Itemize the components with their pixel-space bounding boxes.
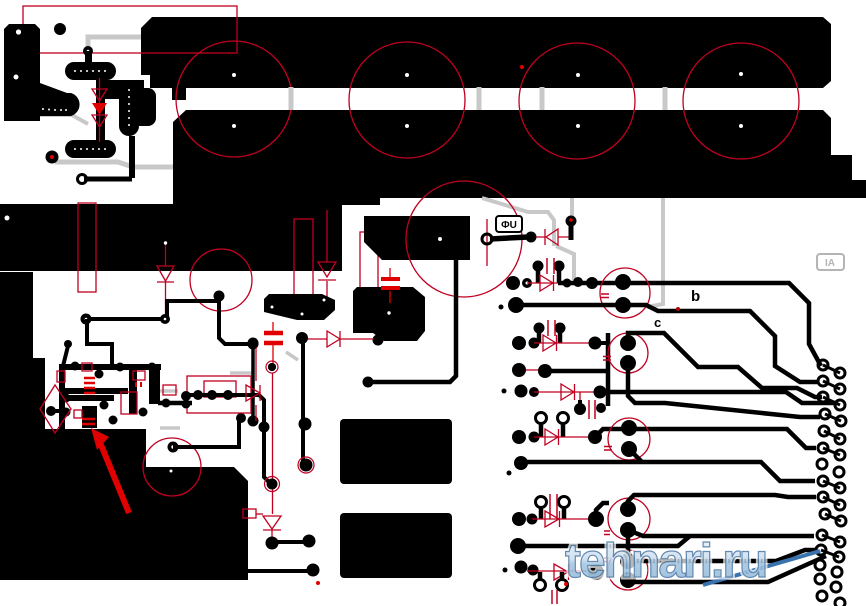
pad small red ring bbox=[268, 363, 276, 371]
pad c-line bbox=[508, 297, 524, 313]
pad D1 bbox=[54, 23, 66, 35]
wire row2b bbox=[545, 369, 608, 374]
gray trace below pour 2 bbox=[556, 198, 574, 280]
silkscreen rectangle top-left bbox=[23, 6, 237, 53]
row1 cap silkscreen bbox=[547, 258, 554, 274]
wire VD4 right bbox=[272, 540, 308, 544]
big electrolytic capacitor circle C3 bbox=[519, 43, 635, 159]
pad C5 lower bbox=[268, 363, 276, 371]
vertical bar between pads bbox=[96, 78, 105, 142]
stem Q1 bbox=[85, 51, 92, 63]
hole in heatsink 1 bbox=[16, 29, 21, 34]
pad P7 bbox=[300, 459, 313, 472]
copper block M5 bbox=[340, 513, 452, 578]
red cross marker bbox=[520, 65, 524, 69]
capacitor C6 silkscreen bbox=[381, 268, 400, 303]
diode VD2 silkscreen bbox=[157, 243, 174, 318]
red arrow bbox=[99, 440, 129, 513]
resistor R1 silkscreen bbox=[78, 203, 96, 292]
copper pour below band right part bbox=[342, 110, 831, 198]
silkscreen circle K3 bbox=[143, 438, 201, 496]
pad N3 bbox=[248, 339, 259, 350]
diode VD3 silkscreen bbox=[327, 331, 340, 347]
pad VD2 bottom bbox=[160, 314, 170, 324]
wire diamond pad to IC bbox=[51, 409, 61, 413]
copper tab at band left end bbox=[172, 87, 186, 100]
silkscreen circle K1 bbox=[190, 249, 252, 311]
svg-text:IA: IA bbox=[825, 258, 835, 269]
resistor R2 silkscreen bbox=[294, 219, 313, 313]
svg-text:ФU: ФU bbox=[501, 220, 517, 231]
logo FU box bbox=[496, 216, 522, 232]
copper left column bbox=[0, 272, 33, 360]
transistor T2 pads bbox=[620, 335, 636, 351]
capacitor C5 silkscreen bbox=[264, 322, 283, 367]
svg-text:tehnari.ru: tehnari.ru bbox=[565, 535, 766, 588]
wire pour to F1 bbox=[247, 569, 312, 573]
transistor T1 pads bbox=[615, 274, 631, 290]
pads in R4 bbox=[181, 391, 191, 401]
wire pad86 to pad219 bbox=[86, 301, 219, 319]
copper pour small step under M-area bbox=[342, 198, 380, 205]
wire through R4 bbox=[190, 395, 264, 427]
red ring pad P7 bbox=[298, 457, 314, 473]
wire Lg bbox=[628, 550, 815, 561]
copper island M3 bbox=[264, 294, 335, 320]
red dot row0 bbox=[569, 218, 573, 222]
fuse pad S1 bbox=[65, 62, 116, 80]
heatsink texture dashes bbox=[42, 108, 67, 111]
pad row2b mid bbox=[538, 364, 552, 378]
hole in K3 bbox=[170, 470, 173, 473]
dot bbox=[499, 305, 504, 310]
copper island M2 bbox=[353, 287, 425, 341]
pad C7 bbox=[248, 338, 259, 349]
wire Le bbox=[628, 495, 816, 508]
wire from S3 down bbox=[129, 136, 135, 178]
hole in M1 bbox=[438, 237, 442, 241]
wire L4 bbox=[628, 363, 820, 417]
pad IC corner bbox=[64, 340, 72, 348]
logo IA box bbox=[817, 254, 844, 270]
transistor T3 pads bbox=[621, 420, 637, 436]
pad K3 bbox=[168, 442, 179, 453]
wire N3 down bbox=[251, 344, 255, 421]
IC silkscreen boxes bbox=[57, 363, 176, 418]
red square marker bbox=[243, 509, 256, 518]
copper pour right step bbox=[830, 155, 866, 198]
wire pad219 down to C5 bbox=[219, 296, 249, 344]
pad P4 bbox=[78, 175, 87, 184]
wire L3 bbox=[628, 333, 822, 397]
wire IC corner up bbox=[63, 346, 68, 366]
row1 diode silkscreen bbox=[527, 282, 600, 284]
red dot on b bbox=[676, 307, 680, 311]
vertical stadium S3 bbox=[119, 83, 139, 136]
wire Lf bbox=[518, 536, 814, 546]
IC cap silkscreen 2 bbox=[84, 388, 95, 393]
row1 junction pads bbox=[563, 279, 572, 288]
wire Lh bbox=[628, 556, 826, 582]
wire T4-T5 bbox=[626, 530, 631, 561]
vertical V1 bbox=[606, 333, 611, 406]
pad row0 top bbox=[566, 216, 577, 227]
gray via trace in band 3 bbox=[540, 87, 545, 110]
big electrolytic capacitor circle C2 bbox=[349, 42, 465, 158]
gray trace from pad P3 bbox=[55, 162, 173, 167]
wire P5 down bbox=[301, 341, 305, 462]
red ring pad C5 bbox=[266, 361, 278, 373]
diode VD4 silkscreen bbox=[263, 516, 281, 530]
transistor T5 pads bbox=[620, 553, 636, 569]
pad N4 bbox=[248, 416, 259, 427]
row0 feed: pad ring bbox=[482, 234, 492, 244]
svg-text:b: b bbox=[691, 288, 700, 305]
round pad P3 bbox=[46, 151, 59, 164]
stub row0 bbox=[569, 224, 574, 240]
hole above VD2 bbox=[164, 241, 167, 244]
gray trace below pour 3 bbox=[647, 198, 663, 307]
IC cap silkscreen 1 bbox=[84, 378, 95, 383]
cap pad holes bbox=[5, 72, 744, 221]
diode VD10 silkscreen bbox=[545, 229, 558, 245]
copper pour left extension bbox=[0, 204, 173, 271]
gray trace below pour 1 bbox=[482, 198, 554, 246]
T1 cap marks bbox=[601, 294, 609, 298]
gray trace under transistor bbox=[37, 115, 88, 124]
transistor T1 circle bbox=[600, 268, 650, 318]
row2b pad bbox=[512, 363, 526, 377]
heatsink polygon top-left bbox=[4, 24, 80, 121]
pad VD4 bbox=[266, 537, 279, 550]
pair links bbox=[821, 365, 841, 557]
row3 lower stub bbox=[578, 400, 582, 409]
IC cap silkscreen 4 bbox=[136, 382, 141, 387]
wire N1 to IC bbox=[87, 319, 112, 366]
wire T4 bottom bbox=[628, 530, 690, 536]
resistor R4 silkscreen bbox=[187, 376, 251, 413]
hole pad K3 bbox=[171, 445, 174, 448]
microcontroller IC region bbox=[59, 364, 161, 430]
wire B1 down bbox=[264, 427, 271, 484]
row1 stub pads bbox=[533, 261, 544, 272]
diode VD1 silkscreen (dual) bbox=[99, 78, 101, 142]
gray via trace in band 1 bbox=[289, 87, 294, 110]
hole in K1 bbox=[218, 281, 221, 284]
red ring pad B2 bbox=[265, 477, 280, 492]
svg-text:c: c bbox=[654, 315, 661, 330]
pad B2 bbox=[267, 479, 278, 490]
transistor T4 pads bbox=[620, 501, 636, 517]
IC cap silkscreen 3 bbox=[82, 419, 95, 424]
pad P5 bbox=[296, 332, 308, 344]
diamond silkscreen bbox=[40, 385, 71, 433]
pad M1w bbox=[363, 377, 374, 388]
IC wire to R4 bbox=[158, 401, 192, 406]
red net line at FU pad bbox=[486, 219, 488, 266]
gray trace in IC area bbox=[160, 352, 298, 428]
pad K3b bbox=[236, 413, 246, 423]
red net line down left column bbox=[272, 373, 274, 514]
pad Q1 top bbox=[83, 46, 93, 56]
copper pour top main band bbox=[0, 17, 866, 360]
pad F1 bbox=[307, 564, 320, 577]
wire to pad P4 bbox=[84, 177, 132, 182]
black blob joining stadiums bbox=[103, 80, 144, 99]
wire row4b + Td bbox=[521, 462, 815, 481]
copper pour below band left deep part bbox=[173, 110, 342, 271]
wire Tc bbox=[595, 429, 816, 448]
silkscreen circle K2 bbox=[406, 181, 522, 297]
copper block M1 bbox=[364, 216, 470, 260]
copper pour bottom-left bbox=[0, 358, 248, 580]
red marker on pad P3 bbox=[50, 155, 54, 159]
diode VD6 silkscreen vertical bbox=[318, 210, 336, 298]
fuse pad S2 bbox=[65, 140, 116, 158]
red line P5 to M2 bbox=[307, 338, 374, 340]
wire c-line bbox=[516, 305, 819, 382]
pad P6 bbox=[299, 418, 312, 431]
pad N1 bbox=[81, 314, 92, 325]
diode VD5 silkscreen bbox=[246, 385, 260, 401]
wire K3 right bbox=[173, 420, 239, 447]
gray trace to pad Q1 bbox=[88, 37, 141, 51]
IC pads bbox=[46, 362, 191, 425]
pad N2 bbox=[214, 291, 225, 302]
row1 left pads bbox=[506, 276, 520, 290]
red dot bbox=[564, 582, 568, 586]
gray via trace in band 2 bbox=[477, 87, 482, 110]
gray via trace in band 4 bbox=[663, 87, 668, 110]
pad B1 bbox=[259, 422, 270, 433]
resistor R3 silkscreen bbox=[360, 232, 378, 325]
copper block M4 bbox=[340, 419, 452, 484]
wire b-line bbox=[558, 283, 821, 366]
hole in heatsink 2 bbox=[14, 75, 19, 80]
wire row0 bbox=[490, 237, 528, 239]
wire M1 down and left bbox=[367, 260, 456, 382]
pad row0 bbox=[526, 232, 537, 243]
wire Ta bbox=[600, 392, 838, 403]
big electrolytic capacitor circle C1 bbox=[176, 41, 292, 157]
pad E1 bbox=[303, 535, 316, 548]
red dot marker bbox=[316, 581, 320, 585]
pad M2 bottom bbox=[373, 335, 384, 346]
big electrolytic capacitor circle C4 bbox=[683, 43, 799, 159]
